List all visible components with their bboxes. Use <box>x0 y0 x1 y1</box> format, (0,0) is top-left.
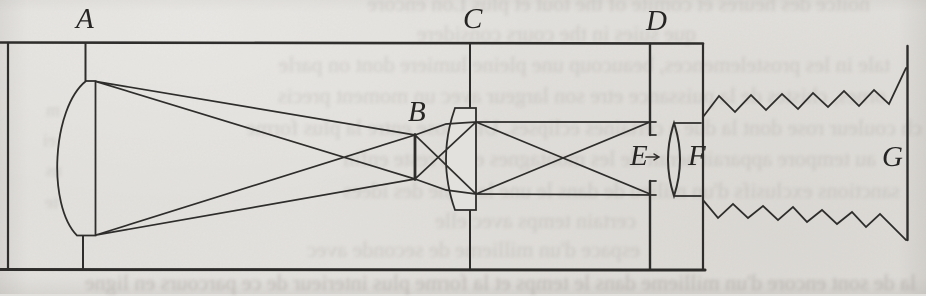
ray: A top edge to B bottom <box>96 82 415 180</box>
objective cell tick A (bottom) <box>82 236 84 270</box>
ray: diagonal lower-to-upper crossing C-D space <box>476 122 650 194</box>
ray: diagonal upper-to-lower crossing C-D space <box>476 122 650 194</box>
ray: upper horizontal from field lens to D <box>476 121 656 123</box>
svg-text:B: B <box>408 96 426 128</box>
svg-text:E: E <box>629 140 648 172</box>
ray: eye lens bottom to housing edge <box>675 195 701 197</box>
svg-text:G: G <box>882 141 903 173</box>
objective lens A (plano-convex, convex left) <box>57 81 95 236</box>
upper divergent ray zigzag to G <box>703 68 906 117</box>
lower divergent ray zigzag to G <box>703 200 906 240</box>
telescope tube bottom wall <box>0 268 705 272</box>
field lens C (plano-convex, convex left) <box>446 108 476 210</box>
svg-text:F: F <box>687 140 706 172</box>
D aperture tick bottom <box>650 180 656 182</box>
ray: A top edge to B top <box>96 82 415 136</box>
objective cell tick A (top) <box>85 43 87 81</box>
node C vertical line (upper segment) <box>469 44 471 108</box>
ray: B bottom crossing to lens upper exit <box>415 122 476 179</box>
ray: lower horizontal from field lens to D <box>476 194 656 195</box>
svg-text:D: D <box>645 5 667 37</box>
arrow for E pointing at eye lens <box>646 156 658 158</box>
ray: B top crossing to lens lower exit <box>415 135 476 194</box>
eye lens F (biconvex) <box>668 123 680 196</box>
tube left end cap <box>7 43 9 270</box>
node D vertical line (upper segment) <box>649 44 651 136</box>
svg-text:A: A <box>74 3 94 35</box>
svg-text:C: C <box>463 3 483 35</box>
ray: B top through field lens upper <box>415 122 476 135</box>
field stop / image segment B <box>414 135 417 180</box>
D aperture tick top <box>650 134 656 136</box>
ray: A bottom edge to B bottom <box>96 179 415 235</box>
ray: B bottom through field lens lower <box>415 179 476 194</box>
ray: A bottom edge to B top <box>96 135 415 235</box>
node C vertical line (lower segment) <box>469 211 471 270</box>
node D vertical line (lower segment) <box>649 181 651 270</box>
virtual image line G <box>906 46 908 240</box>
ray: eye lens top to housing edge <box>675 122 701 124</box>
telescope tube top wall <box>0 43 703 44</box>
eyepiece housing right wall <box>702 44 704 271</box>
